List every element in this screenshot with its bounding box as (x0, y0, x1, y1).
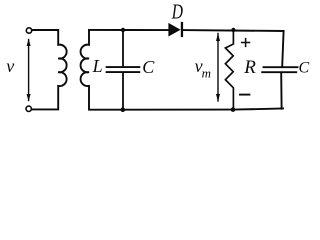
svg-text:R: R (243, 57, 256, 78)
svg-text:C: C (299, 60, 310, 77)
svg-text:C: C (142, 57, 155, 77)
svg-text:D: D (171, 1, 184, 24)
svg-text:v: v (6, 56, 14, 76)
svg-text:L: L (92, 56, 103, 76)
svg-text:m: m (202, 66, 211, 81)
